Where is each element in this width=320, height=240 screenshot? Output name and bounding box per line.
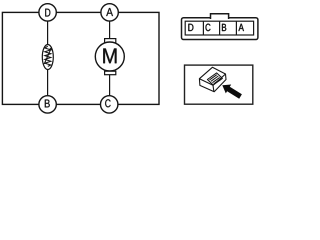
node C	[101, 96, 118, 113]
pin label A	[238, 24, 243, 31]
motor M (fuel pump)	[95, 39, 124, 75]
node D	[39, 4, 56, 21]
connector view direction icon box	[185, 65, 253, 104]
resistor (fuel level sender, variable)	[42, 45, 53, 70]
view direction arrow	[222, 85, 242, 99]
wire left branch D to B	[47, 12, 49, 104]
wire outer loop frame	[2, 12, 159, 104]
connector J1 housing outline	[182, 14, 258, 40]
connector 3d pictogram	[199, 67, 226, 91]
node A	[101, 4, 118, 21]
wire right branch A to C	[109, 12, 111, 104]
pin label D	[188, 24, 193, 31]
pin label B	[222, 24, 226, 31]
pin label C	[206, 24, 211, 31]
node B	[39, 96, 56, 113]
connector pin row	[185, 21, 253, 35]
